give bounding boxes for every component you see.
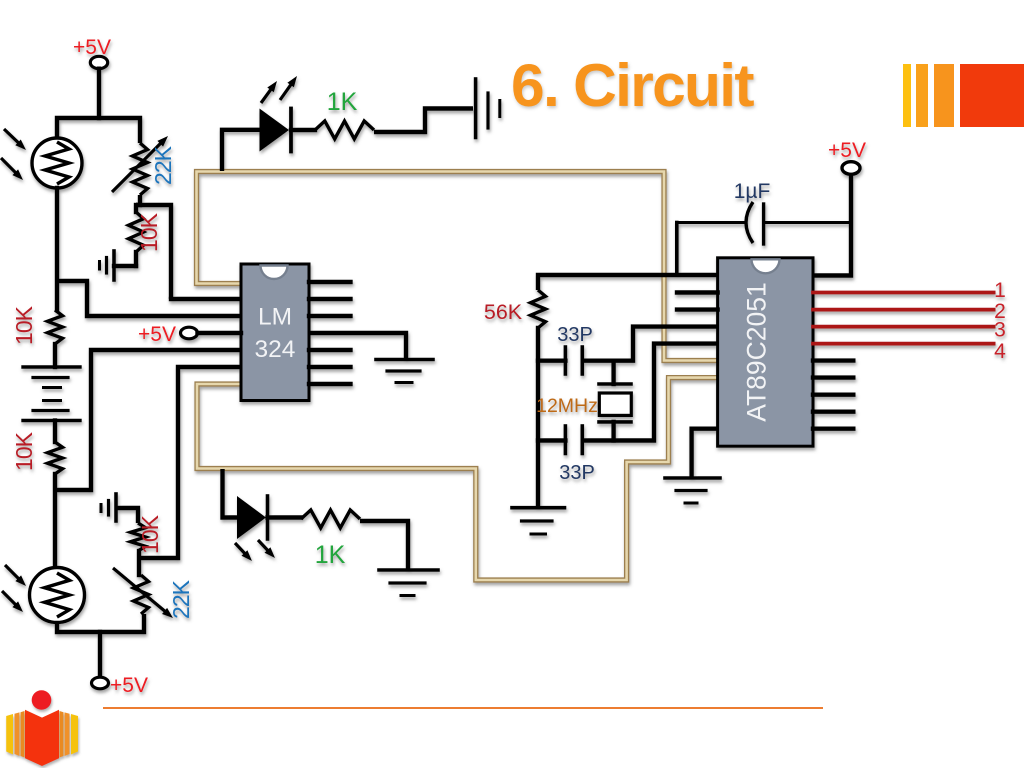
resistor R4 10K [131,523,146,551]
wire LM324 pin11 to ground [309,333,406,359]
wire 22K to 10K junction [136,195,140,205]
wire tan bus B: LM324 pin7 to AT89C2051 [197,378,719,580]
svg-text:10K: 10K [11,431,37,471]
wire rail to LDR2 [53,474,57,569]
LED D1 [260,109,290,152]
crystal X1 12MHz [611,361,615,384]
wire LDR1 to left rail [55,188,59,310]
wire to +5V bottom [98,632,102,678]
wire VCC row to AT89C2051 pin1 [538,275,719,290]
top-right logo bars [903,64,911,127]
svg-text:LM: LM [258,304,292,331]
svg-text:AT89C2051: AT89C2051 [742,282,772,421]
+5V bottom terminal [92,677,109,689]
ground G1 (left-facing) [100,251,115,280]
svg-text:3: 3 [994,319,1006,342]
capacitor C1 33P [538,359,565,363]
wire 1K to ground [360,521,408,570]
wire C1 to AT89C2051 pin4 [582,327,719,361]
op-amp U1 LM324 [241,264,309,401]
wire LED D1 anode from tan bus [222,130,260,171]
ground G4 [379,570,438,596]
svg-text:1µF: 1µF [734,180,771,203]
wire from +5V to top rail [97,69,101,118]
svg-text:33P: 33P [557,324,593,346]
svg-text:56K: 56K [484,300,523,324]
battery B1 [23,367,80,421]
emission arrows D1 [261,76,297,103]
light arrows into LDR1 [1,129,26,180]
wire +5V to AT89C2051 pin20 [813,175,851,276]
svg-text:12MHz: 12MHz [536,395,598,417]
svg-text:10K: 10K [137,514,163,554]
svg-text:324: 324 [255,336,296,363]
svg-text:+5V: +5V [138,323,176,346]
ground G7 [665,478,720,503]
emission arrows D2 [235,540,275,561]
svg-text:1K: 1K [315,541,346,569]
ground G5 [376,360,433,383]
svg-text:10K: 10K [136,212,162,252]
photoresistor LDR1 [32,138,82,188]
svg-text:22K: 22K [150,145,176,185]
svg-text:4: 4 [994,340,1006,363]
wire to LM324 pin6 [139,367,241,558]
resistor R3 10K [48,442,63,474]
resistor R1 10K [48,310,63,344]
wire D1 to 1K [291,128,315,132]
variable resistor VR2 22K [134,575,149,614]
wire node B branch to LM324 pin5 [55,350,241,490]
svg-text:1K: 1K [327,88,358,116]
wire D2 to 1K [268,515,302,519]
variable resistor VR1 22K [133,143,148,195]
svg-text:33P: 33P [559,462,595,484]
wire C2 to AT89C2051 pin5 [582,344,719,441]
title [511,50,753,120]
resistor 1K (bottom) [301,510,360,528]
wire tan bus A: LM324 pin1 to AT89C2051 [197,172,720,361]
resistor R2 10K [129,212,144,252]
AT89C2051 right pin stubs [813,361,853,429]
wire LM324 pin2 [171,297,241,301]
microcontroller U2 AT89C2051 [718,258,813,446]
svg-text:+5V: +5V [110,674,148,697]
wire LED D2 anode from tan bus [223,469,238,518]
ground G2 (left-facing) [101,494,116,521]
bottom divider rule [103,707,823,709]
wire AT89C2051 pin10 to ground [692,429,718,477]
output wire 1 [813,291,994,295]
svg-text:10K: 10K [11,305,37,345]
photoresistor LDR2 [30,568,85,623]
+5V top-left terminal [90,56,107,68]
wire node A branch to LM324 pin3 [57,281,241,316]
LM324 right pin stubs [309,282,351,384]
logo red dot [32,690,52,710]
AT89C2051 left pin stubs [677,293,718,310]
LED D2 [237,496,266,539]
logo book shape [6,710,78,766]
svg-text:1: 1 [994,279,1006,302]
wire 22K top to 10K R4 [137,551,141,575]
svg-text:22K: 22K [168,579,194,619]
wire 10K to ground [114,264,136,268]
capacitor C2 33P [538,438,565,442]
wire LDR2 bottom [57,614,144,632]
svg-text:+5V: +5V [828,139,866,162]
resistor 1K (top) [315,121,374,139]
wire 1K to ground [374,109,473,133]
output wire 2 [813,308,994,312]
resistor 56K [531,290,546,328]
wire top rail [57,118,140,143]
svg-text:+5V: +5V [73,36,111,59]
output wire 4 [813,342,994,346]
ground G6 below 56K [512,508,565,534]
ground G3 (right-facing) [476,79,500,138]
light arrows into LDR2 [2,565,26,612]
output wire 3 [813,325,994,329]
wire C3 left to VCC row [675,223,679,276]
